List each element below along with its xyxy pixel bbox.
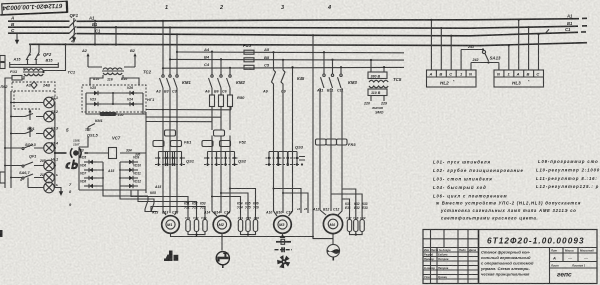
wire tap x116 from B bbox=[115, 27, 117, 44]
wire bus to TC1 bbox=[10, 60, 59, 68]
lamp bus verticals bbox=[5, 91, 11, 188]
ground arrow below C bbox=[16, 33, 18, 41]
bottom earth bus bbox=[171, 233, 314, 236]
branch3 side taps bbox=[274, 189, 309, 214]
machine head icon bbox=[65, 162, 70, 169]
motor M2 bbox=[213, 216, 231, 234]
sub-bus B4 bbox=[170, 58, 404, 61]
resistor R32 bbox=[354, 220, 358, 232]
resistor R26 bbox=[253, 220, 257, 232]
coupling under M3 bbox=[280, 235, 286, 239]
wire phase C right bbox=[77, 32, 587, 36]
title block outer frame bbox=[423, 230, 597, 284]
branch1 wires to motor bbox=[163, 166, 177, 215]
pump icon under M4 bbox=[313, 234, 333, 245]
branch3 wires to motor bbox=[274, 166, 293, 216]
resistor R22 bbox=[194, 220, 198, 232]
contactor KM2 bbox=[212, 52, 230, 75]
corner mark bottom-left bbox=[0, 230, 3, 237]
wire phase B left bbox=[8, 26, 70, 28]
transformer TC5 leads bbox=[371, 60, 384, 72]
contactor KM1 bbox=[163, 21, 177, 75]
fan icon under M3 bbox=[277, 255, 290, 268]
connector plug symbol bbox=[55, 152, 67, 154]
capacitor VC7 body bbox=[109, 148, 117, 159]
title block vertical main bbox=[478, 230, 480, 284]
resistor R33 bbox=[360, 220, 364, 232]
terminal box left edge lower bbox=[0, 172, 5, 183]
ground arrow lamp ladder bbox=[54, 188, 61, 193]
wire break slashes bbox=[545, 29, 549, 34]
lamp unit HL3 bbox=[494, 70, 544, 87]
lit massa masshtab grid bbox=[550, 248, 598, 269]
bridge internal wires bbox=[86, 93, 143, 104]
terminal boxes left edge bbox=[0, 56, 5, 62]
sub-bus A4 bbox=[177, 51, 404, 54]
branch4 wires to motor bbox=[320, 148, 342, 215]
wire tap x95 from A bbox=[94, 21, 96, 45]
branch2 resistor taps bbox=[212, 189, 256, 220]
motor M3 bbox=[274, 216, 292, 234]
link marks near QS3 bbox=[299, 157, 305, 161]
rectifier bridge dashed box bbox=[82, 85, 146, 112]
contactor KM4,5 bbox=[274, 52, 293, 73]
resistor 150 bbox=[100, 112, 117, 116]
transformer TC5 bbox=[368, 72, 387, 79]
diode net inner verticals bbox=[79, 162, 146, 190]
resistor R31 bbox=[347, 220, 351, 232]
wire phase A left bbox=[8, 20, 70, 22]
title text area bbox=[479, 248, 598, 284]
coolant pump icon under M2 bbox=[221, 237, 223, 251]
dashed block lower bbox=[14, 91, 55, 109]
heavy vertical from C line down bbox=[312, 35, 314, 236]
wires HL2 to buses bbox=[431, 20, 471, 70]
title block left grid bbox=[423, 230, 479, 284]
sub-bus C4 bbox=[163, 66, 404, 69]
power block A1 dashed bbox=[12, 82, 55, 91]
wire neutral bus bbox=[29, 43, 587, 46]
resistor R23 bbox=[203, 220, 207, 232]
resistor R25 bbox=[246, 220, 250, 232]
branch4 resistor routing bbox=[331, 189, 362, 220]
motor M4 bbox=[323, 214, 342, 233]
contactor KM3 bbox=[324, 52, 341, 74]
title box top-left (rotated drawing number) bbox=[0, 1, 67, 16]
diode net right bus bbox=[145, 112, 147, 190]
staircase wires to branch1 resistors bbox=[145, 190, 147, 193]
lamp right bus bbox=[54, 103, 56, 188]
motor M1 bbox=[162, 216, 180, 234]
diode net left bus bbox=[78, 147, 80, 190]
wires HL3 to buses bbox=[499, 20, 539, 70]
branch2 wires to motor bbox=[212, 166, 230, 216]
wire phase A right bbox=[77, 18, 588, 21]
diode net top wire bbox=[86, 152, 146, 154]
wire phase C left bbox=[8, 32, 70, 34]
wire phase B right bbox=[77, 26, 588, 28]
lamp unit HL2 bbox=[427, 70, 477, 87]
horizontal link wires upper bbox=[108, 113, 146, 115]
machine tool icon under M1 bbox=[165, 251, 173, 262]
